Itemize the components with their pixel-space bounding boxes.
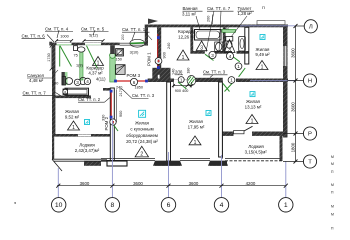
svg-text:Лоджия: Лоджия [248, 144, 264, 149]
svg-text:900: 900 [119, 111, 123, 117]
svg-text:660: 660 [224, 27, 229, 31]
svg-text:4: 4 [220, 202, 224, 209]
svg-text:Жилая: Жилая [246, 99, 261, 104]
svg-text:10: 10 [55, 202, 63, 209]
svg-text:См. ТТ. п. 7: См. ТТ. п. 7 [207, 6, 231, 11]
svg-text:Жилая: Жилая [189, 119, 204, 124]
svg-text:1: 1 [194, 140, 197, 146]
svg-text:4,37 м²: 4,37 м² [88, 71, 103, 76]
svg-text:140: 140 [172, 69, 176, 75]
svg-text:См. ТТ. п. 7: См. ТТ. п. 7 [23, 91, 47, 96]
svg-text:17,95 м²: 17,95 м² [188, 125, 205, 130]
svg-text:э: э [14, 200, 16, 205]
svg-text:См. ТТ. п. 6: См. ТТ. п. 6 [22, 34, 46, 39]
svg-text:См. ТТ. п. 2: См. ТТ. п. 2 [78, 97, 101, 102]
svg-text:См. ТТ. п. 3: См. ТТ. п. 3 [132, 93, 155, 98]
svg-text:3,15(4,5)м²: 3,15(4,5)м² [245, 150, 268, 155]
svg-text:Коридор: Коридор [178, 29, 196, 34]
svg-text:М: М [331, 162, 334, 166]
svg-text:Л: Л [309, 24, 313, 30]
svg-text:1: 1 [230, 78, 233, 83]
svg-text:3: 3 [211, 53, 214, 58]
svg-text:240: 240 [167, 43, 171, 49]
svg-text:1: 1 [261, 65, 264, 71]
svg-text:3600: 3600 [290, 48, 295, 58]
svg-text:180: 180 [187, 68, 191, 74]
svg-text:150: 150 [116, 58, 122, 62]
svg-text:200: 200 [52, 82, 58, 86]
svg-text:3600: 3600 [290, 102, 295, 112]
svg-text:РОМ 1: РОМ 1 [147, 52, 152, 66]
svg-text:РОМ 2: РОМ 2 [104, 116, 109, 130]
svg-text:6: 6 [167, 202, 171, 209]
svg-text:200: 200 [207, 16, 211, 22]
svg-text:5(12): 5(12) [89, 34, 99, 38]
svg-text:200: 200 [121, 34, 125, 40]
svg-text:12,26 м²: 12,26 м² [178, 34, 195, 39]
svg-text:3: 3 [200, 46, 203, 52]
svg-text:2170: 2170 [119, 88, 123, 96]
svg-text:См. ТТ. п. 1: См. ТТ. п. 1 [122, 27, 146, 32]
svg-text:4(11): 4(11) [96, 77, 106, 82]
svg-text:1(8): 1(8) [76, 64, 83, 68]
svg-text:Р: Р [308, 132, 312, 138]
svg-text:8: 8 [111, 202, 115, 209]
svg-text:оборудованием: оборудованием [126, 133, 158, 138]
svg-text:См. ТТ. п. 4: См. ТТ. п. 4 [45, 26, 69, 31]
svg-text:1: 1 [284, 202, 288, 209]
svg-text:900: 900 [163, 52, 167, 58]
svg-text:13,13 м²: 13,13 м² [245, 105, 262, 110]
svg-text:Жилая: Жилая [135, 121, 150, 126]
svg-text:2: 2 [140, 152, 143, 158]
svg-text:1800: 1800 [290, 142, 295, 152]
svg-text:1: 1 [251, 119, 254, 125]
svg-text:1000: 1000 [60, 35, 68, 39]
svg-text:1850: 1850 [135, 85, 143, 89]
svg-text:3600: 3600 [189, 181, 199, 186]
svg-text:с кухонным: с кухонным [130, 127, 153, 132]
svg-text:1,28 м²: 1,28 м² [238, 11, 253, 16]
svg-text:3: 3 [76, 80, 79, 85]
svg-text:3,11 м²: 3,11 м² [182, 11, 196, 16]
svg-text:1730: 1730 [47, 53, 51, 61]
svg-text:М: М [331, 155, 334, 159]
svg-text:М: М [331, 183, 334, 187]
svg-text:9,52 м²: 9,52 м² [65, 115, 80, 120]
svg-text:20,72 (24,38) м²: 20,72 (24,38) м² [126, 139, 158, 144]
svg-text:4: 4 [229, 54, 232, 59]
svg-text:2,42(3,47)м²: 2,42(3,47)м² [75, 148, 100, 153]
svg-text:Лоджия: Лоджия [79, 143, 95, 148]
svg-text:П: П [262, 5, 265, 10]
svg-text:3600: 3600 [133, 181, 143, 186]
svg-text:4200: 4200 [246, 181, 256, 186]
svg-text:2(9): 2(9) [175, 70, 183, 75]
svg-text:РОМ 3: РОМ 3 [127, 73, 141, 78]
svg-text:4,48 м²: 4,48 м² [29, 78, 44, 83]
svg-text:М: М [331, 213, 334, 217]
svg-text:Н: Н [308, 79, 312, 85]
svg-text:Т: Т [308, 160, 312, 166]
svg-text:Ванная: Ванная [183, 6, 199, 11]
svg-text:6: 6 [133, 80, 136, 85]
svg-text:3600: 3600 [80, 181, 90, 186]
svg-text:1: 1 [237, 64, 240, 69]
svg-text:9,49 м²: 9,49 м² [255, 52, 270, 57]
svg-text:75: 75 [74, 54, 78, 58]
svg-text:8: 8 [64, 90, 66, 94]
svg-text:См. ТТ. п. 5: См. ТТ. п. 5 [81, 26, 105, 31]
svg-text:Жилая: Жилая [65, 109, 80, 114]
svg-text:4: 4 [86, 79, 89, 84]
svg-text:3(10): 3(10) [130, 51, 140, 55]
svg-text:См. ТТ. п. 3: См. ТТ. п. 3 [203, 70, 226, 75]
svg-text:1: 1 [72, 125, 75, 131]
svg-text:900 400: 900 400 [175, 89, 189, 93]
svg-text:М: М [331, 205, 334, 209]
svg-text:1: 1 [182, 55, 185, 61]
